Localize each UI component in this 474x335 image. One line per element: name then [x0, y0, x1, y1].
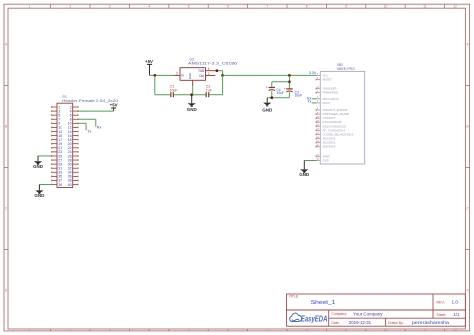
svg-text:11: 11: [423, 5, 427, 9]
svg-text:Sheet_1: Sheet_1: [311, 300, 336, 306]
svg-text:12: 12: [453, 328, 457, 332]
svg-text:GND: GND: [323, 159, 329, 163]
svg-text:1/1: 1/1: [454, 312, 461, 317]
svg-text:Your Company: Your Company: [353, 311, 383, 316]
svg-text:AMS1117-3.3_C6186: AMS1117-3.3_C6186: [188, 60, 238, 65]
svg-text:10uF: 10uF: [170, 88, 178, 92]
svg-text:10uF: 10uF: [295, 94, 303, 98]
svg-text:39: 39: [58, 183, 62, 187]
svg-text:1: 1: [29, 328, 31, 332]
svg-text:EasyEDA: EasyEDA: [301, 315, 328, 324]
svg-text:3.3V: 3.3V: [309, 71, 317, 75]
svg-text:TITLE:: TITLE:: [289, 294, 299, 298]
svg-text:40: 40: [68, 183, 72, 187]
svg-text:6: 6: [227, 5, 229, 9]
svg-text:GND: GND: [187, 107, 198, 112]
svg-text:2: 2: [69, 5, 71, 9]
svg-text:Rx: Rx: [97, 126, 102, 130]
svg-text:+: +: [266, 86, 268, 90]
svg-text:11: 11: [423, 328, 427, 332]
svg-text:Sheet:: Sheet:: [437, 313, 447, 317]
svg-text:TAB: TAB: [198, 69, 205, 73]
svg-text:12: 12: [453, 5, 457, 9]
svg-text:PWM0/RSSI: PWM0/RSSI: [323, 91, 339, 95]
svg-text:6: 6: [227, 328, 229, 332]
svg-text:B: B: [467, 125, 469, 129]
svg-text:Company:: Company:: [332, 312, 348, 316]
svg-text:GND: GND: [33, 164, 44, 169]
svg-text:7: 7: [266, 5, 268, 9]
svg-text:Out: Out: [199, 74, 204, 78]
svg-text:+5V: +5V: [110, 102, 118, 107]
svg-text:pererasharesha: pererasharesha: [412, 320, 450, 325]
svg-text:2019-12-31: 2019-12-31: [349, 320, 372, 325]
svg-text:8: 8: [306, 5, 308, 9]
svg-text:3: 3: [176, 71, 178, 75]
svg-text:2: 2: [69, 328, 71, 332]
svg-text:3: 3: [109, 5, 111, 9]
svg-text:Tx: Tx: [307, 100, 311, 104]
svg-text:10uF: 10uF: [276, 91, 284, 95]
svg-text:4: 4: [208, 67, 210, 71]
svg-text:5: 5: [188, 328, 190, 332]
svg-text:3: 3: [109, 328, 111, 332]
svg-text:Tx: Tx: [87, 130, 91, 134]
svg-text:5: 5: [188, 5, 190, 9]
svg-text:DOUT: DOUT: [323, 101, 331, 105]
svg-text:4: 4: [148, 5, 150, 9]
svg-text:XBEE-PRO: XBEE-PRO: [337, 67, 355, 71]
svg-text:RESET: RESET: [323, 78, 333, 82]
svg-text:10: 10: [384, 5, 388, 9]
svg-text:GND: GND: [188, 73, 192, 79]
svg-text:7: 7: [266, 328, 268, 332]
svg-text:10: 10: [384, 328, 388, 332]
svg-text:Drawn By:: Drawn By:: [388, 321, 404, 325]
svg-text:AD0/DIO0: AD0/DIO0: [323, 145, 336, 149]
svg-text:GND: GND: [262, 107, 273, 112]
svg-text:1uF: 1uF: [206, 88, 212, 92]
svg-text:Date:: Date:: [332, 321, 340, 325]
svg-text:9: 9: [345, 5, 347, 9]
svg-text:B: B: [5, 125, 7, 129]
svg-text:REV:: REV:: [437, 300, 445, 304]
svg-text:2: 2: [208, 72, 210, 76]
svg-text:GND: GND: [299, 172, 310, 177]
svg-text:9: 9: [345, 328, 347, 332]
svg-text:4: 4: [148, 328, 150, 332]
svg-text:+5V: +5V: [145, 59, 153, 64]
svg-text:8: 8: [306, 328, 308, 332]
svg-text:GND: GND: [34, 193, 45, 198]
svg-text:In: In: [181, 74, 184, 78]
svg-text:1.0: 1.0: [452, 299, 459, 304]
svg-text:1: 1: [29, 5, 31, 9]
